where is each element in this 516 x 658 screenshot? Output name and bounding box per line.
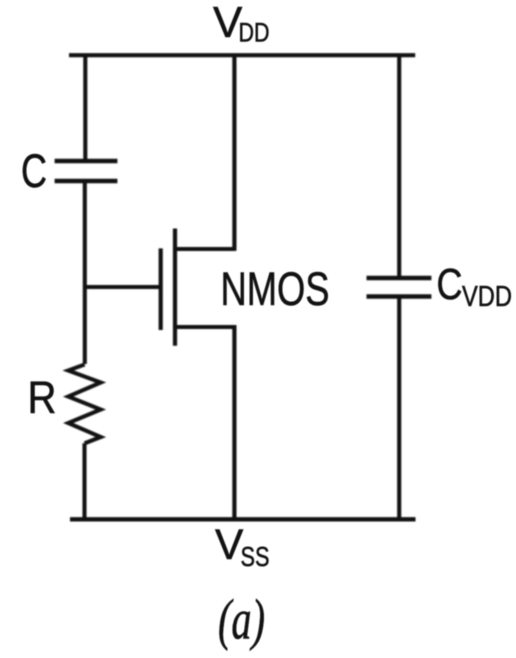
wire source stub — [175, 325, 235, 329]
wire drain stub — [175, 247, 235, 251]
label VDD — [213, 0, 270, 48]
wire left branch middle (capacitor C to resistor R) — [83, 183, 87, 365]
wire right branch bottom (capacitor CVDD to VSS rail) — [397, 298, 401, 519]
svg-text:C: C — [437, 260, 463, 309]
wire drain to VDD rail — [232, 55, 236, 251]
capacitor C bottom plate — [55, 179, 118, 183]
svg-text:C: C — [21, 144, 47, 197]
svg-text:SS: SS — [241, 541, 270, 572]
label VSS — [215, 522, 270, 572]
wire VDD top rail — [69, 53, 415, 57]
transistor Q1 channel bar — [173, 229, 177, 346]
capacitor CVDD top plate — [367, 276, 432, 280]
wire right branch top (VDD rail to capacitor CVDD) — [397, 55, 401, 276]
capacitor CVDD bottom plate — [367, 294, 432, 298]
svg-text:R: R — [28, 372, 57, 423]
svg-text:VDD: VDD — [462, 281, 512, 313]
wire resistor R to VSS rail — [82, 443, 86, 519]
svg-text:(a): (a) — [218, 589, 265, 652]
wire left branch top (VDD rail to capacitor C) — [83, 55, 87, 159]
wire VSS bottom rail — [70, 517, 416, 521]
wire source to VSS rail — [232, 325, 236, 519]
label CVDD (capacitor CVDD value) — [437, 260, 513, 313]
resistor R zigzag — [68, 365, 100, 444]
node A gate junction wire — [85, 285, 161, 289]
transistor Q1 gate bar — [159, 248, 163, 330]
svg-text:DD: DD — [239, 18, 270, 48]
svg-text:NMOS: NMOS — [221, 262, 330, 315]
capacitor C top plate — [55, 159, 118, 163]
